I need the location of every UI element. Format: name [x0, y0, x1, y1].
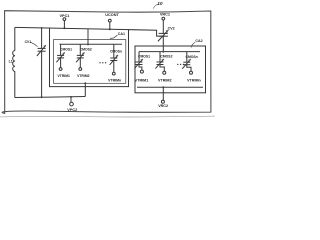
svg-text:CMOS1: CMOS1 — [138, 55, 150, 59]
svg-text:VPC2: VPC2 — [67, 108, 77, 112]
capacitor CMOSn cell — [108, 44, 122, 82]
junction CV1-bottom — [41, 96, 43, 98]
terminal circle VPC2 — [70, 102, 74, 106]
ellipsis bank2 — [177, 64, 184, 65]
junction VPC1-bus — [63, 27, 65, 29]
wire left branch down — [49, 28, 51, 87]
junction VPC2 — [70, 96, 72, 98]
svg-text:L1: L1 — [9, 60, 13, 64]
capacitor bank box CA1 — [50, 28, 129, 87]
capacitor CV2 — [158, 30, 168, 41]
svg-text:VRC1: VRC1 — [160, 12, 170, 16]
reference numeral 10 leader — [153, 4, 158, 8]
svg-text:VTRIM2: VTRIM2 — [158, 79, 172, 83]
svg-text:VRC2: VRC2 — [158, 104, 168, 108]
svg-text:CV1: CV1 — [25, 40, 32, 44]
svg-text:VTRIM1: VTRIM1 — [135, 79, 149, 83]
bottom wire — [15, 97, 86, 98]
capacitor CMOS1 cell bank2 — [134, 52, 150, 83]
leader CA1 — [110, 35, 117, 38]
svg-text:CMOS2: CMOS2 — [160, 55, 172, 59]
wire bank1 input — [87, 29, 89, 45]
junction CV1-bus — [41, 27, 43, 29]
capacitor CMOSn cell bank2 — [182, 52, 201, 83]
svg-text:CMOSn: CMOSn — [186, 55, 198, 59]
wire VPC1 stem — [63, 21, 65, 29]
wire VRC1 to CV2 top — [162, 20, 164, 33]
junction CV2 bottom — [162, 35, 164, 37]
svg-text:UCONT: UCONT — [105, 13, 119, 17]
svg-text:VTRIMn: VTRIMn — [108, 78, 121, 82]
leader CV1 — [30, 42, 37, 46]
cell top bus bank1 — [60, 43, 123, 45]
terminal circle UCONT — [108, 19, 111, 22]
wire bank1 output — [84, 83, 86, 96]
wire CV2 to right bank — [162, 36, 164, 51]
svg-text:CMOSn: CMOSn — [110, 50, 122, 54]
cell top bus bank2 — [139, 51, 200, 53]
inductor L1 — [13, 27, 15, 97]
svg-text:CA2: CA2 — [195, 39, 202, 43]
svg-text:VTRIM1: VTRIM1 — [58, 74, 71, 78]
wire UCONT stem — [109, 22, 111, 29]
junction bank1 input — [87, 43, 89, 45]
svg-text:VTRIMn: VTRIMn — [187, 79, 201, 83]
scan artifact line — [0, 115, 215, 118]
terminal circle VPC1 — [63, 18, 66, 21]
svg-text:10: 10 — [157, 1, 163, 7]
wire bank2 output — [162, 87, 164, 100]
svg-text:CMOS1: CMOS1 — [60, 48, 72, 52]
svg-text:VTRIM2: VTRIM2 — [77, 74, 90, 78]
terminal circle VRC2 — [161, 100, 164, 103]
inner rect CA1 — [54, 40, 126, 84]
svg-text:CMOS2: CMOS2 — [80, 48, 92, 52]
wire VPC2 stem — [70, 97, 72, 102]
capacitor CMOS2 cell bank2 — [155, 52, 172, 83]
svg-text:CA1: CA1 — [118, 32, 125, 36]
junction bank1 output — [84, 82, 86, 84]
top bus wire VPC1/UCONT — [15, 27, 164, 36]
capacitor CV1 — [37, 28, 46, 97]
capacitor CMOS1 cell — [56, 44, 72, 78]
junction bank2 output — [162, 86, 164, 88]
svg-text:CV2: CV2 — [168, 27, 175, 31]
junction UCONT-bus — [109, 28, 111, 30]
ellipsis bank1 — [99, 62, 106, 63]
outer IC boundary frame — [2, 11, 211, 114]
capacitor CMOS2 cell — [76, 44, 92, 78]
junction bank2 input — [162, 51, 164, 53]
leader CA2 — [191, 42, 195, 47]
capacitor bank box CA2 — [135, 46, 206, 93]
bottom bus bank2 — [137, 86, 203, 88]
terminal circle VRC1 — [162, 17, 165, 20]
